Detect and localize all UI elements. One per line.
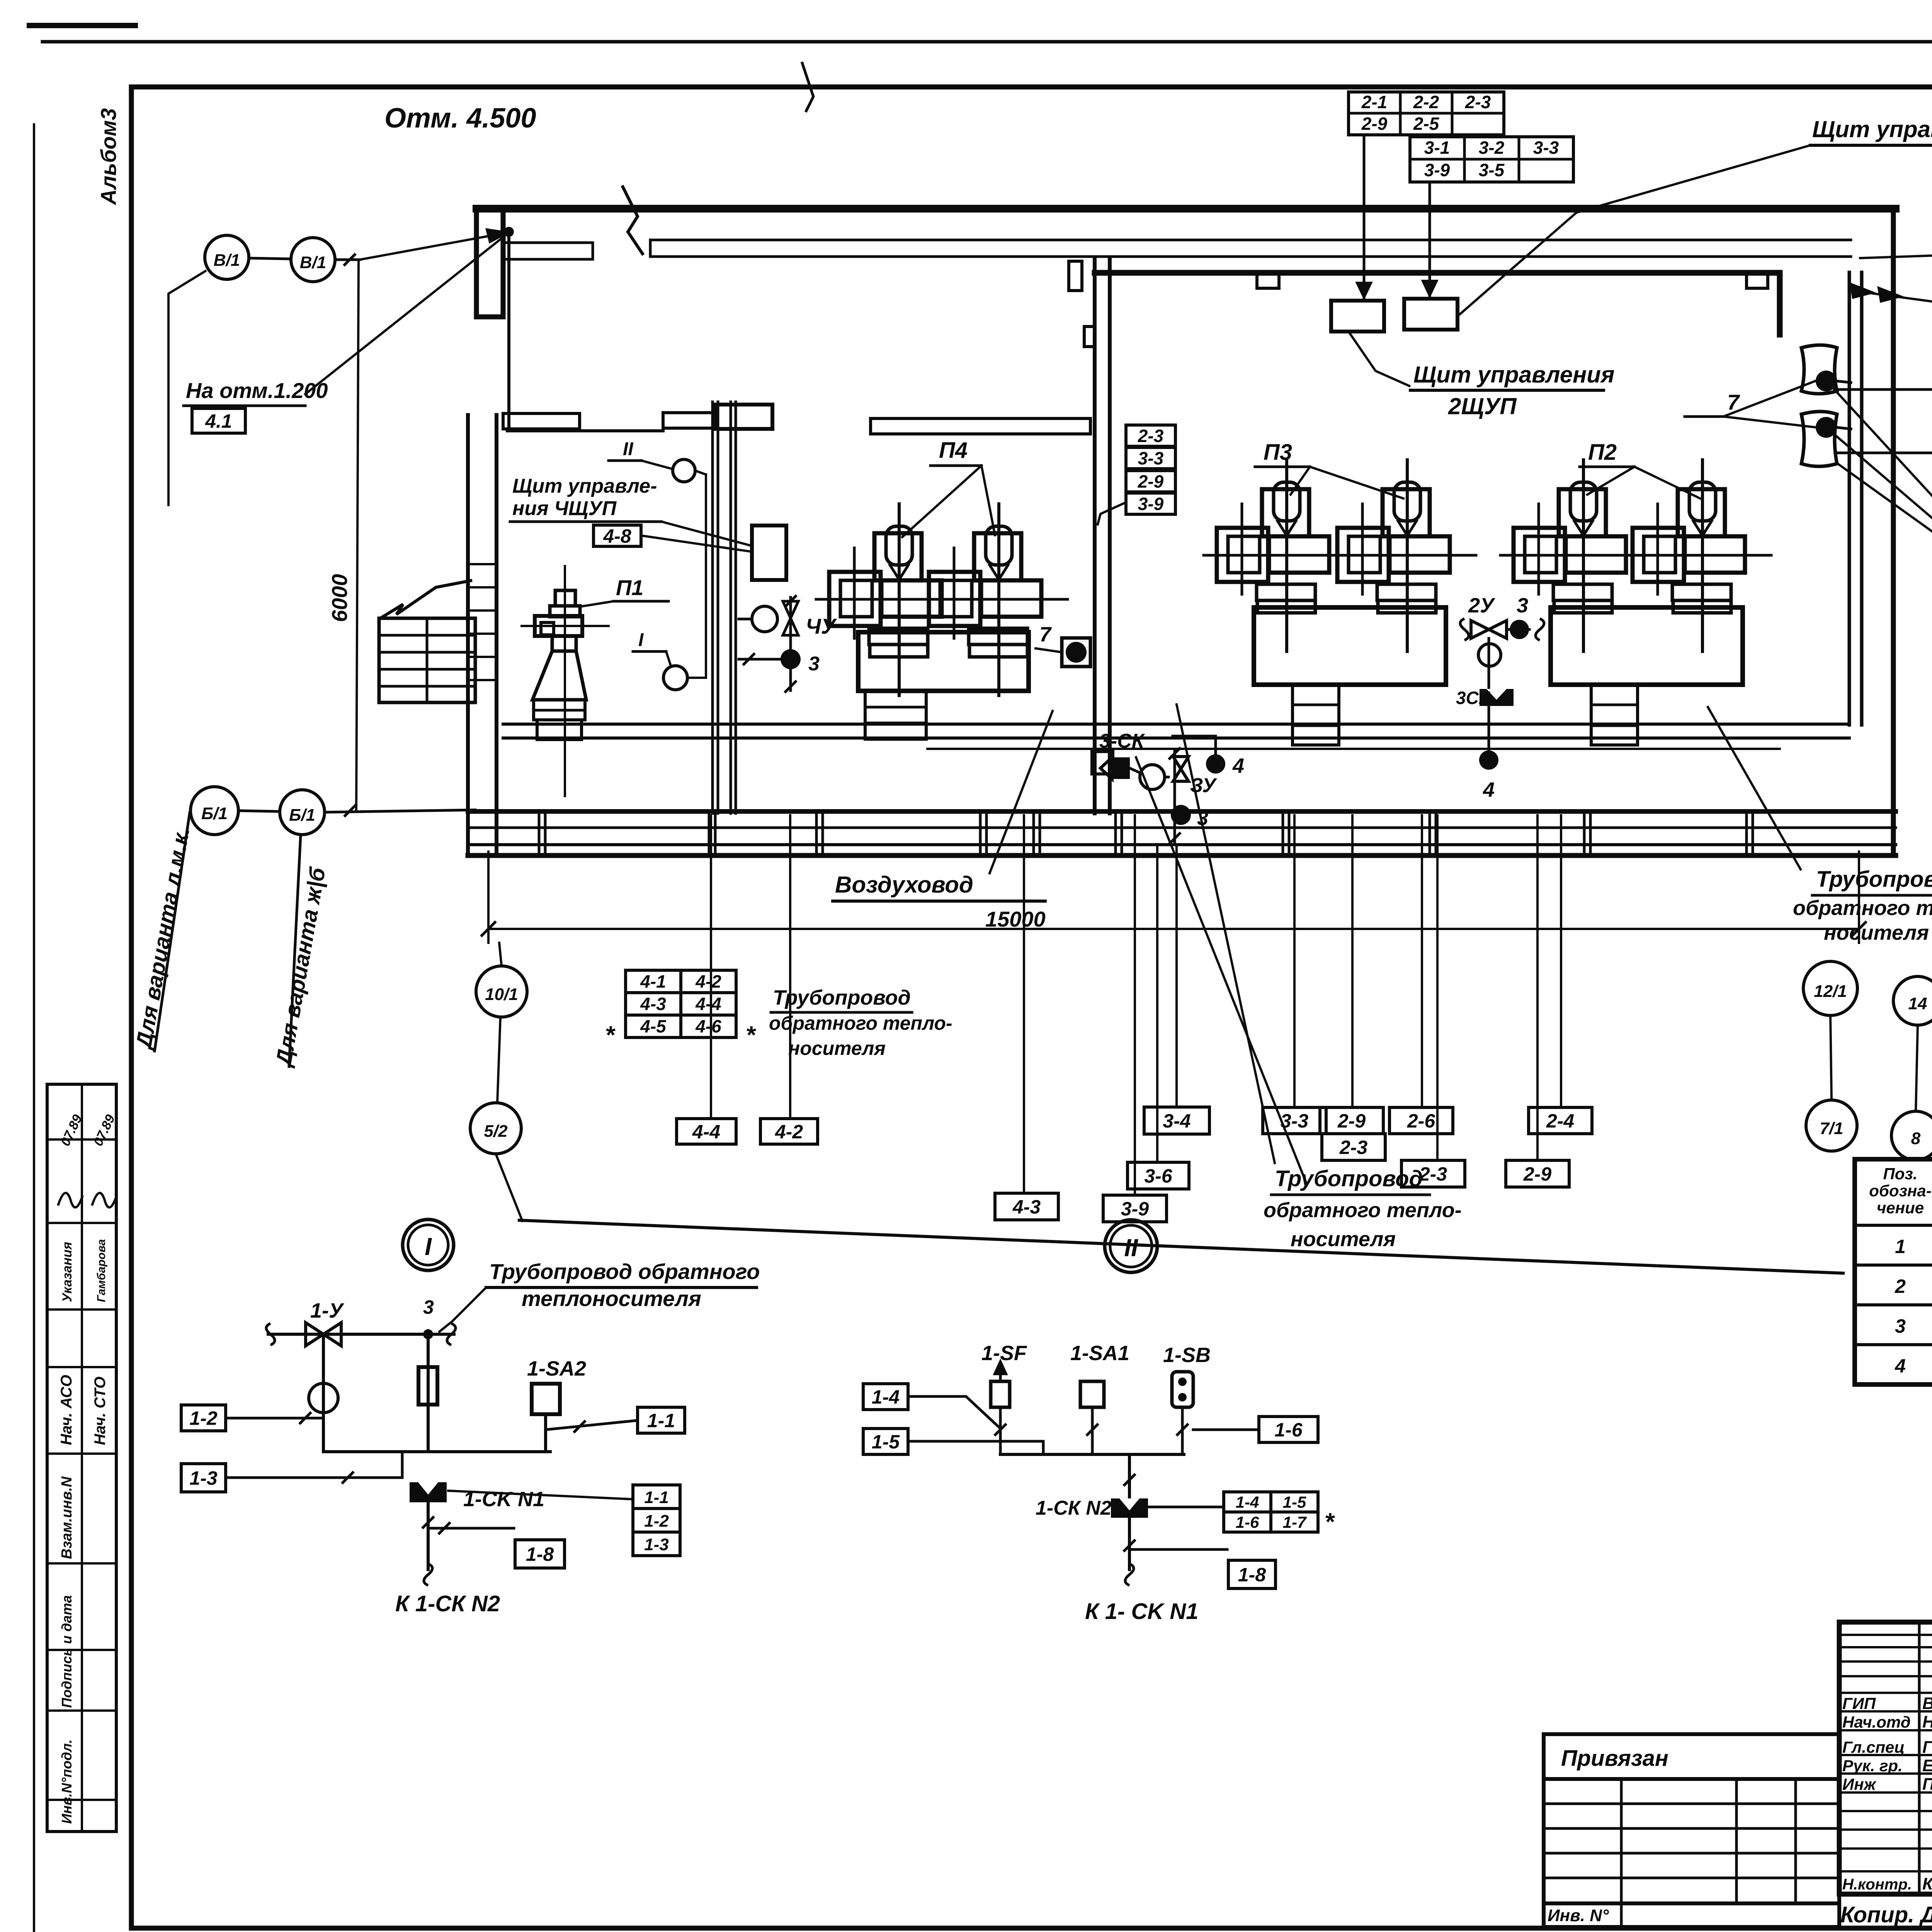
svg-text:3: 3 [1517,594,1528,617]
svg-text:Вайсбанд: Вайсбанд [1922,1694,1932,1713]
svg-text:1-5: 1-5 [1283,1493,1306,1511]
svg-text:1-3: 1-3 [644,1535,669,1554]
circle 12/1 [1803,961,1857,1015]
text Shchit upravleniya 2ShchUP [1349,332,1614,419]
drop from node with filter [418,1334,437,1452]
svg-text:Щит управления: Щит управления [1413,362,1614,388]
circle 10/1 [476,966,527,1017]
svg-text:Б/1: Б/1 [201,804,228,823]
bottom wall of building [468,809,1896,814]
svg-text:2-9: 2-9 [1337,1110,1366,1132]
top-left wall pilaster [476,209,503,317]
svg-text:П2: П2 [1588,440,1617,465]
node 3 [423,1329,433,1339]
svg-text:3-5: 3-5 [1479,160,1505,180]
svg-text:1-6: 1-6 [1236,1513,1259,1531]
label box 3-6 [1128,1162,1189,1189]
svg-text:1-1: 1-1 [647,1410,675,1432]
svg-text:3: 3 [808,653,820,675]
label box 2-3 [1322,1134,1385,1160]
svg-text:2-9: 2-9 [1361,114,1388,134]
label box 4-4 [677,1119,736,1144]
svg-text:П1: П1 [616,575,643,600]
svg-text:носителя: носителя [1291,1228,1396,1251]
svg-text:2ЩУП: 2ЩУП [1448,393,1517,419]
text Na otm.1.200 + box 4.1 [184,234,507,433]
P4 common plinth [858,632,1029,691]
svg-text:Трубопровод: Трубопровод [1275,1166,1423,1191]
cable drop to panel 1 [1357,135,1371,298]
svg-text:2-4: 2-4 [1546,1110,1574,1132]
svg-text:4-6: 4-6 [695,1016,721,1036]
fan unit P3 left [1204,460,1355,651]
bottom wall jambs [538,811,541,855]
svg-text:1-8: 1-8 [1238,1564,1266,1586]
label box 2-6 [1389,1107,1453,1134]
svg-text:4.1: 4.1 [205,410,232,432]
svg-text:1-У: 1-У [310,1299,344,1322]
box 1-3 with line [181,1452,402,1492]
leader na otm 1.200 with arrows [1851,284,1932,328]
svg-text:П3: П3 [1264,440,1292,465]
svg-text:Б/1: Б/1 [289,806,315,825]
axis circle V/1 a [205,235,249,279]
label box 4-8 [594,525,641,547]
text truboprovod (right) [1793,867,1932,944]
riser shaft [711,402,714,813]
junction dot 7 with box (left hall) [1036,623,1090,667]
P2 common plinth [1551,607,1743,685]
svg-text:В/1: В/1 [300,253,326,272]
valve 1-U [306,1299,344,1346]
label 7 with leaders [1685,381,1816,427]
left outer wall of lower room [466,415,470,852]
svg-text:К 1-СК N2: К 1-СК N2 [395,1591,500,1616]
svg-text:Альбом3: Альбом3 [96,108,121,206]
title block signature rows [1842,1694,1932,1893]
cable drop to panel 2 [1423,182,1437,296]
component 1-SA1 [1080,1381,1104,1407]
svg-text:П4: П4 [939,438,968,463]
P3 pedestal [1293,685,1339,745]
svg-text:Нач.отд: Нач.отд [1842,1713,1911,1731]
circle 14 [1893,976,1932,1025]
axis line V [168,230,507,506]
text Prolozhit na otm 2.500 [1859,222,1932,258]
title block [1839,1622,1932,1894]
svg-text:3-4: 3-4 [1163,1110,1190,1132]
svg-text:2: 2 [1895,1276,1906,1297]
label box 3-9 [1103,1195,1167,1222]
svg-text:3-9: 3-9 [1138,494,1164,514]
svg-text:Воздуховод: Воздуховод [835,872,973,898]
svg-text:4-3: 4-3 [640,994,666,1014]
floor rail lines [503,723,1849,726]
fan unit P2 right [1619,460,1771,651]
svg-text:4-2: 4-2 [775,1121,803,1143]
node dot at pilaster [504,227,514,237]
svg-text:Прокошко: Прокошко [1922,1775,1932,1794]
detail I circle [403,1219,454,1270]
circle 7/1 [1806,1100,1857,1151]
svg-text:3-1: 3-1 [1424,138,1450,158]
valve assembly 2U/3 (right hall) [1456,594,1544,801]
label P3 [1255,440,1403,498]
svg-text:В/1: В/1 [214,251,240,270]
svg-text:4-4: 4-4 [692,1121,720,1143]
svg-text:4-8: 4-8 [603,526,631,547]
parts table [1855,1159,1932,1384]
svg-text:обратного тепло-: обратного тепло- [1793,896,1932,920]
P3 common plinth [1254,607,1446,685]
dimension 6000 vertical [327,262,359,811]
interior wall stubs [503,413,580,429]
svg-text:10/1: 10/1 [485,985,518,1004]
svg-text:1-8: 1-8 [526,1544,554,1565]
room wall top (left room) [507,429,663,432]
wall duct lines along top wall [650,239,1851,241]
wall break symbol [622,185,643,255]
svg-text:Рук. гр.: Рук. гр. [1842,1757,1903,1775]
svg-text:1-1: 1-1 [644,1488,669,1507]
valve assembly ChU near P1 [739,596,837,692]
detail I bus [323,1450,550,1453]
svg-text:1-4: 1-4 [1236,1493,1259,1511]
line to right stack [448,1491,633,1499]
svg-text:2-6: 2-6 [1407,1110,1435,1132]
svg-text:3-СК: 3-СК [1099,730,1145,752]
fan unit P4 right [916,504,1068,696]
label box 1-8 II [1228,1560,1276,1588]
axis circle B/1 b [280,790,325,835]
control panel 2ShchUP box 2 [1404,299,1458,330]
svg-text:2У: 2У [1468,594,1495,617]
svg-text:1-6: 1-6 [1274,1419,1303,1441]
right hall interior wall face [1095,270,1780,276]
svg-text:2-3: 2-3 [1465,92,1491,112]
drop from valve with flowmeter [309,1334,338,1452]
svg-text:6000: 6000 [327,574,352,622]
svg-text:На отм.1.200: На отм.1.200 [186,378,328,403]
svg-text:4-3: 4-3 [1012,1196,1041,1218]
svg-text:ГИП: ГИП [1842,1694,1876,1713]
P4 pedestal [865,691,926,739]
svg-text:Нач. СТО: Нач. СТО [92,1376,109,1445]
mid wall band left hall [871,418,1090,434]
branch to 1-8 [428,1523,565,1568]
svg-text:3: 3 [1895,1315,1906,1337]
svg-text:1-2: 1-2 [644,1512,669,1531]
svg-text:1-7: 1-7 [1283,1513,1307,1531]
svg-text:Котенко: Котенко [1922,1874,1932,1893]
svg-text:Гамбарова: Гамбарова [95,1239,108,1302]
sheet border outer top line [43,40,1932,44]
svg-text:*: * [746,1021,757,1049]
svg-text:4-4: 4-4 [695,994,721,1014]
right stack 1-1/1-2/1-3 [633,1485,680,1556]
building top wall [476,205,1896,213]
svg-text:3-3: 3-3 [1138,448,1164,468]
label P1 [580,575,668,607]
box 1-1 with line [546,1407,685,1433]
label box 1-6 [1259,1417,1318,1442]
control panel 2ShchUP box 1 [1331,301,1384,332]
svg-text:5/2: 5/2 [484,1122,508,1141]
svg-text:1: 1 [1895,1236,1906,1257]
svg-text:Указания: Указания [60,1242,75,1302]
leader lines from plan to bottom boxes [710,815,712,1119]
detail I main pipe [266,1323,456,1345]
svg-text:4-5: 4-5 [640,1016,667,1036]
svg-text:4: 4 [1895,1355,1906,1377]
svg-text:2-1: 2-1 [1361,92,1387,112]
component 1-SF [991,1361,1010,1407]
label box 4.1 [192,408,245,433]
fan unit P2 left [1500,460,1652,651]
flex duct connectors with dots (right wall) [1801,345,1851,466]
svg-text:I: I [425,1233,432,1260]
svg-text:2-9: 2-9 [1523,1163,1551,1185]
junction dot 4 (left) [1173,736,1244,777]
fan unit P4 left [816,504,968,696]
svg-text:обратного тепло-: обратного тепло- [1264,1199,1462,1222]
svg-text:1-SB: 1-SB [1163,1344,1211,1367]
axis circle B/1 a [190,787,238,835]
svg-text:2-9: 2-9 [1138,471,1164,492]
branch to 1-8 (II) [1124,1518,1276,1588]
wall tabs [1257,273,1279,288]
circle 5/2 [470,1103,521,1154]
label P2 [1580,440,1700,498]
svg-text:2-3: 2-3 [1138,426,1164,446]
svg-text:Нижник: Нижник [1922,1713,1932,1731]
center divider wall [1093,259,1097,813]
table 4-1..4-6 with asterisks [605,970,757,1049]
rotated text variant l.m.k (left) [131,813,195,1052]
component 1-SB [1172,1372,1193,1407]
label box 2-9 b [1506,1160,1569,1187]
svg-text:II: II [1124,1234,1138,1262]
component drops [999,1407,1002,1454]
roman II circle [609,439,706,678]
left stamp column grid [47,1084,116,1832]
svg-text:4-1: 4-1 [640,971,666,992]
label box 1-3 [181,1464,226,1492]
label box 4-8 with leader [594,525,752,552]
svg-text:носителя: носителя [788,1037,886,1059]
label box 1-2 [181,1405,226,1431]
svg-text:обозна-: обозна- [1869,1182,1931,1200]
svg-text:обратного тепло-: обратного тепло- [769,1012,952,1034]
leader lines to vozduhovod [1832,386,1932,578]
svg-text:3-9: 3-9 [1121,1198,1149,1220]
label box 4-3 [995,1193,1058,1220]
svg-text:Щит управле-: Щит управле- [512,475,657,497]
svg-text:Поз.: Поз. [1883,1165,1918,1183]
label box 2-3 b [1401,1160,1465,1187]
lines from dots to boxes 3-5 / 2-5 [1837,388,1932,391]
label box 1-8 [515,1540,565,1568]
svg-text:Еликсон: Еликсон [1922,1756,1932,1775]
svg-text:Копир. Дёнкина: Копир. Дёнкина [1840,1902,1932,1927]
box 1-6 with line [1193,1417,1318,1442]
svg-text:7/1: 7/1 [1820,1119,1843,1138]
svg-text:теплоносителя: теплоносителя [522,1286,701,1311]
svg-text:3-9: 3-9 [1424,160,1450,180]
svg-text:3-3: 3-3 [1533,138,1559,158]
label box 1-1 [638,1407,685,1433]
svg-text:1-4: 1-4 [872,1386,900,1408]
svg-text:Горохов: Горохов [1922,1738,1932,1757]
long bottom boundary line [519,1220,1843,1273]
svg-text:1-SA2: 1-SA2 [527,1357,586,1380]
svg-text:3-3: 3-3 [1281,1110,1308,1132]
sheet border short top-left line [29,23,135,28]
svg-text:Инж: Инж [1842,1775,1877,1793]
label box 4-2 [760,1119,818,1144]
svg-text:Н.контр.: Н.контр. [1842,1876,1912,1893]
svg-text:ЧУ: ЧУ [806,614,837,638]
svg-text:2-3: 2-3 [1419,1163,1447,1185]
svg-text:*: * [605,1021,616,1049]
svg-text:1-3: 1-3 [189,1468,217,1489]
svg-text:ния ЧЩУП: ния ЧЩУП [512,497,617,520]
box 1-2 with line [181,1405,323,1431]
switch 1-SA2 [527,1357,586,1452]
control panel 4ShchUP [752,526,786,580]
svg-text:*: * [1325,1508,1335,1536]
label box 1-4 [863,1384,908,1410]
svg-text:Щит управления 3ЩУП: Щит управления 3ЩУП [1812,116,1932,142]
valve assembly 3-SK center [1099,730,1217,844]
tail K 1-CK N2 [395,1564,500,1616]
roman I circle [633,630,706,690]
axis line B [238,806,475,816]
vozduhovod text (left) [833,711,1053,901]
top table 2-1/2-2/2-3 [1349,92,1504,135]
svg-text:К 1- CK N1: К 1- CK N1 [1085,1599,1198,1624]
svg-text:3СК: 3СК [1456,688,1491,708]
svg-text:Трубопровод: Трубопровод [1816,867,1932,892]
text truboprovod (left bottom) [769,986,952,1059]
svg-text:Инв.N°подл.: Инв.N°подл. [59,1740,75,1824]
svg-text:14: 14 [1908,994,1927,1013]
wall hatch marks [468,563,497,565]
P2 pedestal [1591,685,1638,745]
relay 1-CK N2 [1036,1454,1148,1519]
svg-text:3: 3 [423,1296,434,1318]
svg-text:Отм. 4.500: Отм. 4.500 [384,103,536,134]
dimension 15000 [482,852,1866,943]
svg-text:4-2: 4-2 [695,971,721,992]
circle 8 [1891,1111,1932,1160]
left extension table Privyazan [1544,1734,1839,1927]
detail II circle [1105,1220,1157,1272]
svg-text:7: 7 [1039,623,1052,646]
svg-text:15000: 15000 [985,907,1046,931]
svg-text:3-2: 3-2 [1479,138,1505,158]
svg-text:Трубопровод: Трубопровод [773,986,911,1009]
svg-text:Гл.спец: Гл.спец [1842,1738,1905,1756]
relay 1-CK N1 [410,1482,544,1570]
label box 2-9 [1320,1107,1383,1134]
stacked boxes 2-3/3-3/2-9/3-9 [1097,425,1175,526]
label box 3-4 [1144,1107,1209,1134]
detail II bus [1000,1453,1184,1456]
svg-text:2-5: 2-5 [1413,114,1440,134]
incoming lines from detail I [908,1396,1000,1429]
svg-text:Нач. АСО: Нач. АСО [58,1375,75,1445]
detail I title text [439,1259,760,1332]
svg-text:12/1: 12/1 [1814,982,1847,1001]
svg-text:Инв. N°: Инв. N° [1548,1906,1609,1925]
table 1-4/1-5/1-6/1-7 [1144,1492,1335,1536]
svg-text:II: II [623,439,634,459]
svg-text:1-5: 1-5 [872,1431,900,1453]
svg-text:1-SF: 1-SF [981,1342,1027,1365]
label box 2-4 [1529,1107,1592,1134]
text Shchit upravle-niya 4ShchUP [510,475,751,546]
label box 1-5 [863,1429,908,1454]
diagonal leaders to pipe labels [1177,704,1275,1163]
svg-text:2-2: 2-2 [1413,92,1439,112]
label P4 [902,438,995,537]
svg-text:I: I [638,630,644,650]
stairs [379,580,475,702]
svg-text:носителя: носителя [1824,921,1929,944]
svg-text:чение: чение [1877,1199,1924,1217]
sheet border outer left line [33,124,35,1932]
svg-text:1-SA1: 1-SA1 [1070,1342,1129,1365]
svg-text:3-6: 3-6 [1144,1165,1172,1187]
text Shchit upravleniya 3ShchUP [1459,116,1932,315]
svg-text:Трубопровод обратного: Трубопровод обратного [489,1259,760,1284]
rotated text variant zh/b (left) [271,835,330,1069]
svg-text:1-СК N2: 1-СК N2 [1036,1497,1112,1519]
svg-text:Подпись и дата: Подпись и дата [59,1595,75,1708]
fan unit P3 right [1324,460,1476,651]
building right wall [1891,209,1896,852]
svg-text:Привязан: Привязан [1561,1746,1668,1771]
svg-text:4: 4 [1232,754,1244,777]
building inner right wall [1848,272,1851,725]
axis circle V/1 b [291,238,335,282]
svg-text:Взам.инв.N: Взам.инв.N [59,1476,75,1559]
stamp signatures [58,1193,83,1207]
label box 3-3 [1263,1107,1326,1134]
svg-text:2-3: 2-3 [1339,1137,1367,1158]
svg-text:4: 4 [1483,778,1495,801]
top table 3-1/3-2/3-3 [1410,137,1573,182]
heater unit P1 (funnel) [522,566,609,796]
break symbol on top border [802,62,813,112]
text truboprovod (center bottom) [1264,1166,1462,1251]
svg-text:8: 8 [1911,1129,1921,1148]
svg-text:1-2: 1-2 [189,1408,217,1429]
tail K 1-CK N1 [1085,1564,1198,1624]
